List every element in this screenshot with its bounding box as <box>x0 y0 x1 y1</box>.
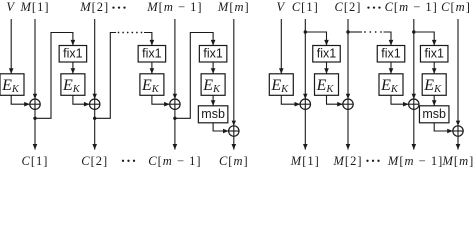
svg-text:M[1]: M[1] <box>290 154 320 168</box>
svg-text:C[1]: C[1] <box>292 0 319 14</box>
svg-text:V: V <box>6 0 15 14</box>
svg-text:C[m − 1]: C[m − 1] <box>148 154 201 168</box>
svg-text:C[m]: C[m] <box>441 0 471 14</box>
svg-text:M[1]: M[1] <box>20 0 50 14</box>
svg-text:C[m]: C[m] <box>219 154 249 168</box>
svg-text:fix1: fix1 <box>142 47 162 61</box>
svg-text:C[m − 1]: C[m − 1] <box>385 0 438 14</box>
svg-text:msb: msb <box>422 107 446 121</box>
svg-text:M[2]: M[2] <box>79 0 109 14</box>
svg-text:V: V <box>276 0 285 14</box>
svg-text:C[1]: C[1] <box>22 154 49 168</box>
svg-text:M[2]: M[2] <box>333 154 363 168</box>
svg-text:fix1: fix1 <box>381 47 401 61</box>
svg-text:M[m − 1]: M[m − 1] <box>387 154 443 168</box>
svg-text:M[m]: M[m] <box>217 0 250 14</box>
svg-text:C[2]: C[2] <box>81 154 108 168</box>
svg-text:C[2]: C[2] <box>335 0 362 14</box>
svg-text:fix1: fix1 <box>203 47 223 61</box>
svg-text:fix1: fix1 <box>424 47 444 61</box>
svg-text:fix1: fix1 <box>317 47 337 61</box>
svg-text:msb: msb <box>201 107 225 121</box>
svg-text:fix1: fix1 <box>63 47 83 61</box>
svg-text:M[m − 1]: M[m − 1] <box>146 0 202 14</box>
svg-text:M[m]: M[m] <box>442 154 474 168</box>
